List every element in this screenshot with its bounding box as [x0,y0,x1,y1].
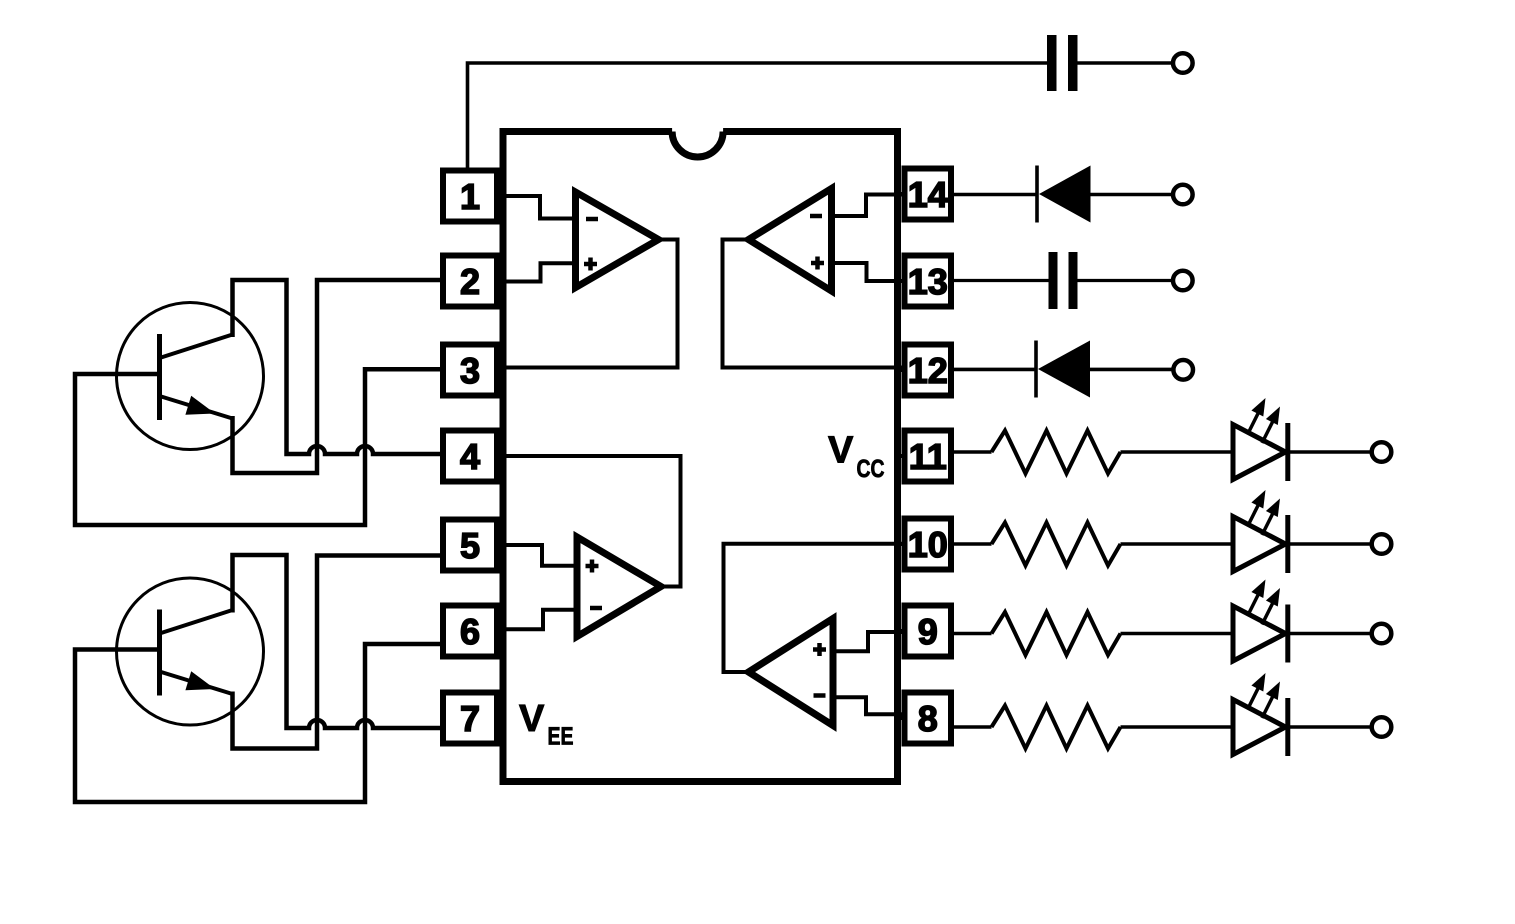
wire U1D output to pin 10 [724,544,905,672]
terminal T1 (open circle) [1173,53,1193,73]
svg-text:9: 9 [918,611,938,652]
pin 8 [894,693,951,744]
wire pin 14 to U1B inverting input [832,195,905,217]
wire LED4 to terminal T8 [1288,725,1372,729]
wire pin 13 to C2 [954,279,1049,282]
pin 6 [443,606,506,657]
LED LED4 (triangle, cathode bar, emission arrows) [1233,673,1288,756]
wire U1A output to pin 3 [497,240,678,368]
wire Q2 base to pin 6 (loop around left) [75,644,443,802]
terminal T3 (open circle) [1173,271,1193,291]
capacitor C2 [1049,252,1078,309]
wire C1 to terminal T1 [1078,61,1174,65]
svg-text:7: 7 [460,698,480,739]
label VCC supply net [828,430,885,484]
svg-text:CC: CC [857,455,885,483]
svg-text:1: 1 [460,176,480,217]
wire U1C output to pin 4 [497,456,681,587]
wire Q2 emitter to pin 5 [233,556,444,749]
svg-text:2: 2 [460,261,480,302]
resistor R3 (zigzag) [992,612,1121,655]
pin 13 [894,256,951,307]
svg-text:V: V [828,430,854,472]
svg-text:13: 13 [908,261,948,302]
wire pin 2 to U1A non-inverting input [497,263,576,281]
wire pin 8 to R4 [954,725,992,729]
wire pin 9 to U1D non-inverting input [833,632,904,651]
wire R3 to LED3 [1121,632,1234,636]
wire R2 to LED2 [1121,542,1234,546]
wire LED3 to terminal T7 [1288,632,1372,636]
svg-text:14: 14 [908,174,948,215]
wire pin 6 to U1C inverting input [497,610,577,630]
pin 5 [443,520,506,571]
op-amp U1D triangle with + and - marks [749,619,834,726]
terminal T8 (open circle) [1372,717,1392,737]
wire Q2 collector to pin 7 (with crossover hops) [233,555,444,728]
svg-text:5: 5 [460,525,480,566]
capacitor C1 [1047,35,1078,91]
svg-text:8: 8 [918,698,938,739]
wire Q1 emitter to pin 2 [233,280,444,473]
svg-text:3: 3 [460,350,480,391]
terminal T6 (open circle) [1372,534,1392,554]
pin 2 [443,256,506,307]
op-amp U1A triangle with + and - marks [576,192,659,288]
terminal T7 (open circle) [1372,624,1392,644]
resistor R4 (zigzag) [992,706,1121,749]
wire pin 8 to U1D inverting input [833,697,904,714]
LED LED2 (triangle, cathode bar, emission arrows) [1233,490,1288,573]
svg-text:4: 4 [460,436,480,477]
resistor R1 (zigzag) [992,431,1121,474]
wire U1B output to pin 12 [723,240,905,368]
pin 4 [443,431,506,482]
diode D2 (cathode bar + filled triangle) [1036,341,1090,398]
LED LED1 (triangle, cathode bar, emission arrows) [1233,398,1288,481]
terminal T4 (open circle) [1173,360,1193,380]
wire Q1 collector to pin 4 (with crossover hops) [233,280,444,454]
wire LED1 to terminal T5 [1288,450,1372,454]
pin 11 [894,431,951,482]
wire pin 13 to U1B non-inverting input [832,263,905,281]
wire D1 to terminal T2 [1091,193,1174,197]
pin 1 [443,171,506,222]
terminal T5 (open circle) [1372,442,1392,462]
svg-text:11: 11 [909,436,947,477]
pin 14 [894,169,951,220]
wire pin 11 to R1 [954,450,992,454]
wire pin 1 to U1A inverting input [497,196,576,219]
pin 12 [894,345,951,396]
wire R4 to LED4 [1121,725,1234,729]
IC U1 body (14-pin package outline with notch) [503,132,898,782]
wire pin 10 to R2 [954,542,992,546]
op-amp U1C triangle with + and - marks [577,537,661,637]
wire pin 12 to D2 [954,368,1035,372]
diode D1 (cathode bar + filled triangle) [1037,166,1091,223]
wire Q1 base to pin 3 (loop around left) [75,369,443,525]
LED LED3 (triangle, cathode bar, emission arrows) [1233,580,1288,663]
pin 7 [443,693,506,744]
pin 9 [894,606,951,657]
op-amp U1B triangle with + and - marks [749,189,832,292]
svg-text:V: V [519,698,545,740]
wire R1 to LED1 [1121,450,1234,454]
svg-text:EE: EE [548,723,574,751]
wire pin 14 to D1 [954,193,1036,197]
wire pin 1 up and across to C1 [468,63,1048,170]
wire LED2 to terminal T6 [1288,542,1372,546]
wire pin 9 to R3 [954,632,992,636]
svg-text:10: 10 [908,524,948,565]
pin 10 [894,519,951,570]
label VEE supply net [519,698,574,751]
svg-text:6: 6 [460,611,480,652]
transistor Q2 (NPN, circle, base bar, collector, emitter with arrow) [117,578,264,725]
svg-text:12: 12 [908,350,948,391]
transistor Q1 (NPN, circle, base bar, collector, emitter with arrow) [117,303,264,450]
terminal T2 (open circle) [1173,185,1193,205]
resistor R2 (zigzag) [992,523,1121,566]
wire D2 to terminal T4 [1090,368,1174,372]
pin 3 [443,345,506,396]
wire pin 5 to U1C non-inverting input [497,545,577,566]
wire C2 to terminal T3 [1078,279,1174,282]
